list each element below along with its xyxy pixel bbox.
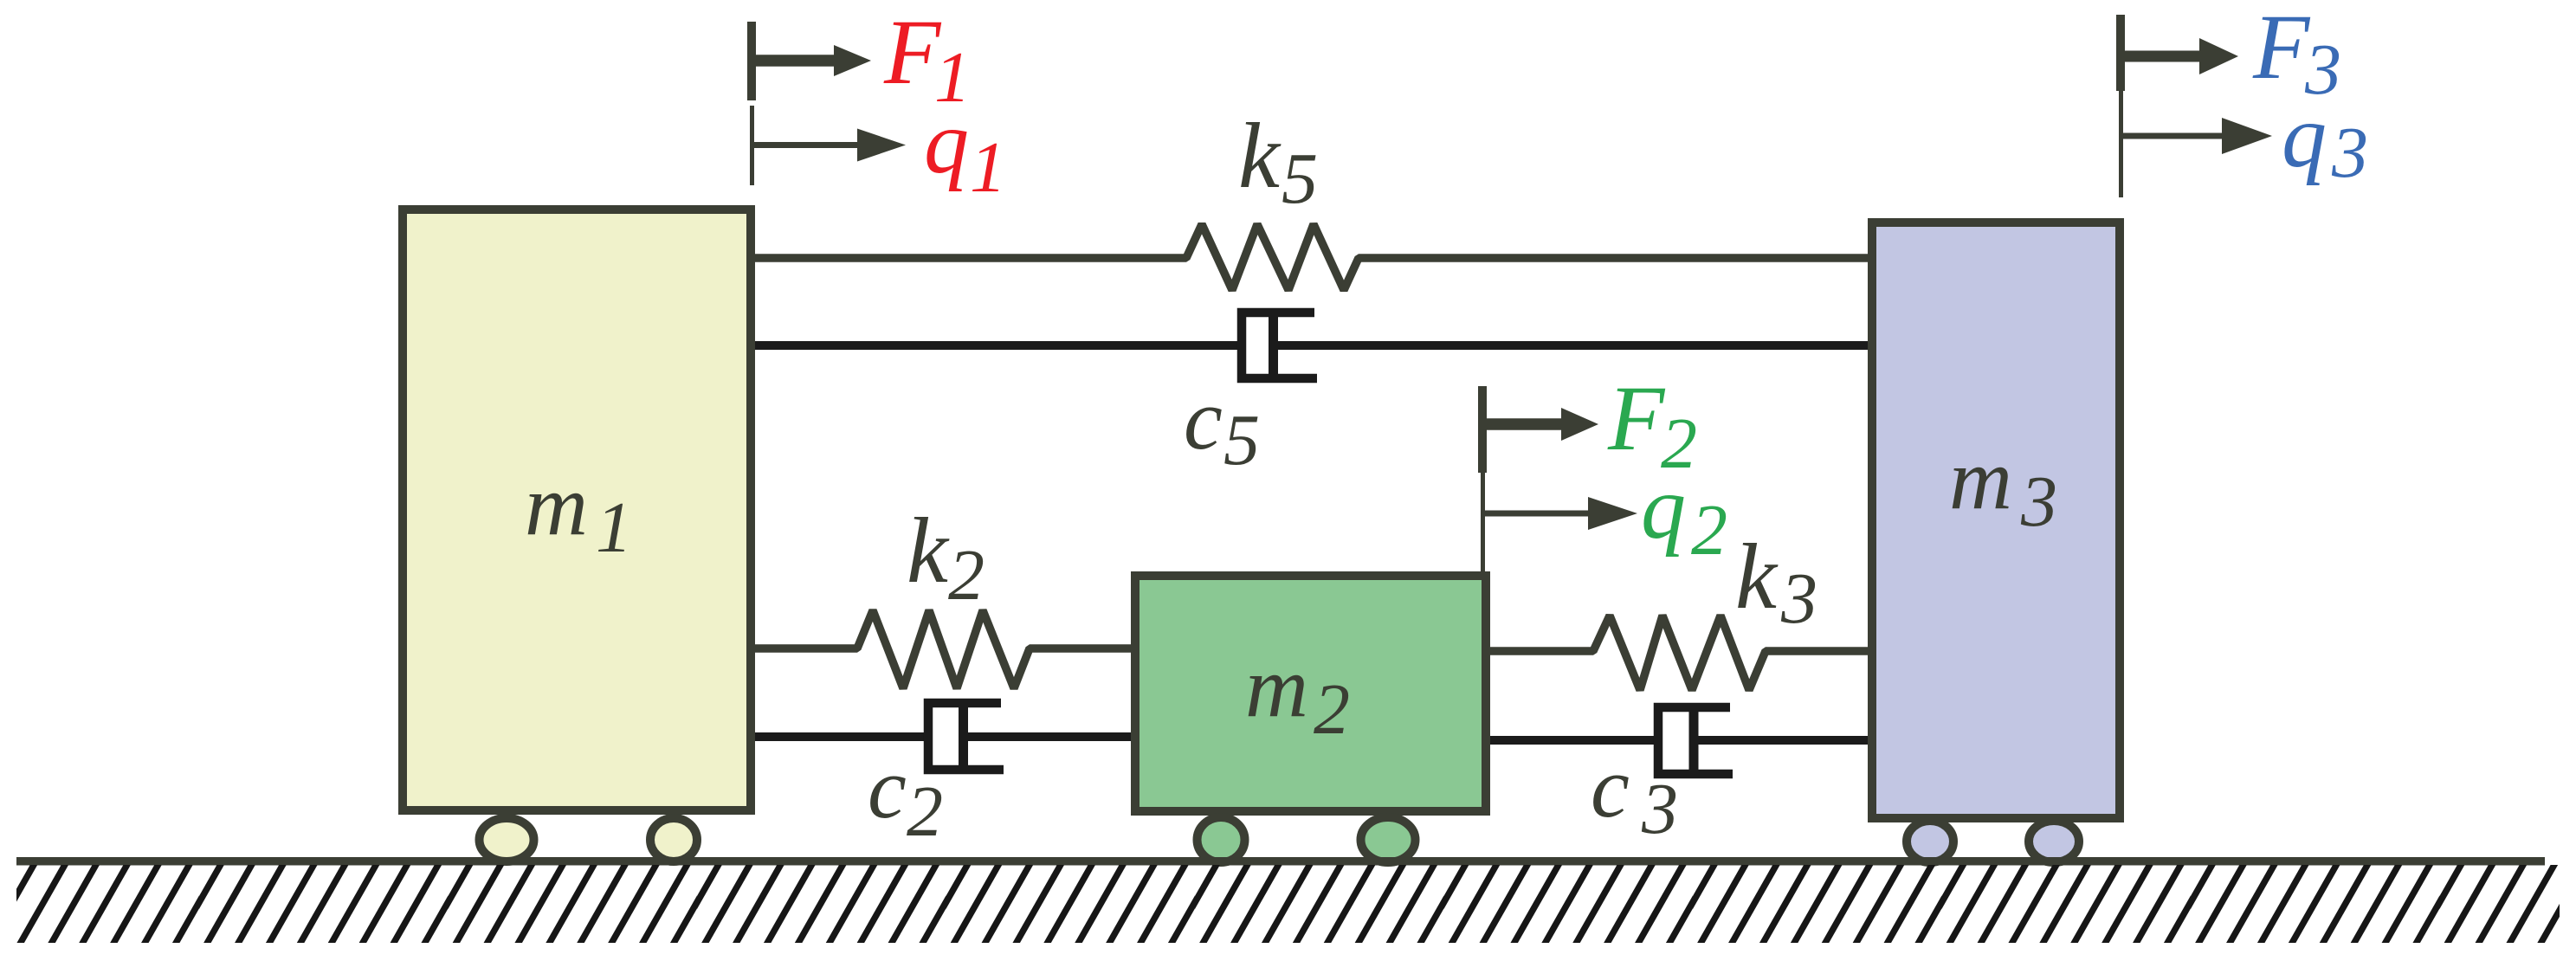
svg-text:2: 2 [1691, 490, 1727, 571]
damper c2 piston [959, 707, 968, 765]
label q3 [2282, 87, 2368, 193]
svg-text:k: k [1735, 526, 1779, 629]
damper c3 piston [1689, 712, 1699, 770]
svg-text:c: c [868, 739, 907, 836]
svg-text:F: F [883, 2, 942, 104]
damper c2 right rod [964, 732, 1132, 741]
wheel m2 right [1361, 817, 1416, 862]
damper c3 cylinder [1658, 707, 1733, 774]
svg-text:c: c [1591, 738, 1630, 835]
svg-text:q: q [1641, 458, 1686, 558]
wheel m2 left [1198, 817, 1245, 862]
mass m3 [1872, 223, 2120, 818]
label m2 [1245, 638, 1350, 750]
svg-text:3: 3 [2331, 113, 2368, 193]
tick bar thick F2 [1478, 386, 1487, 473]
coordinate tick q2/F2 at m2 [1482, 386, 1637, 571]
svg-text:2: 2 [948, 535, 985, 616]
svg-text:3: 3 [2020, 461, 2057, 542]
tick bar thick F3 [2116, 15, 2125, 91]
label m1 [525, 456, 632, 568]
label k2 [907, 500, 985, 616]
spring k3 (m2 to m3) [1490, 616, 1868, 690]
svg-text:q: q [2282, 87, 2327, 186]
ground hatching [16, 865, 2560, 943]
damper c3 left rod [1490, 736, 1658, 745]
svg-text:k: k [907, 500, 950, 603]
svg-text:3: 3 [1780, 558, 1817, 639]
svg-text:2: 2 [907, 771, 943, 852]
svg-text:c: c [1184, 371, 1223, 468]
label c5 [1184, 371, 1260, 480]
spring k2 (m1 to m2) [755, 610, 1131, 688]
svg-text:3: 3 [1641, 769, 1678, 849]
svg-text:m: m [525, 456, 588, 553]
label F3 [2252, 0, 2341, 110]
tick bar thin q3 [2119, 91, 2123, 197]
label k3 [1735, 526, 1817, 639]
damper c2 cylinder [928, 703, 1004, 770]
label c3 [1591, 738, 1678, 849]
wheel m3 left [1907, 821, 1953, 862]
damper c5 cylinder [1242, 313, 1317, 378]
force arrow F2 [1482, 418, 1561, 430]
wheel m1 left [480, 818, 534, 861]
force arrow F1 [752, 55, 834, 67]
svg-text:m: m [1245, 638, 1308, 735]
svg-text:5: 5 [1282, 139, 1318, 219]
mass m1 [403, 210, 751, 810]
wheel m1 right [650, 818, 697, 861]
svg-text:F: F [2252, 0, 2311, 99]
svg-text:2: 2 [1314, 669, 1350, 750]
mass m2 [1135, 576, 1486, 811]
force arrow F3 [2121, 51, 2199, 62]
coordinate tick q3/F3 at m3 [2121, 15, 2272, 197]
ground line [16, 857, 2545, 866]
svg-text:1: 1 [970, 127, 1006, 208]
damper c2 left rod [755, 732, 928, 741]
label q1 [924, 93, 1006, 208]
label k5 [1238, 105, 1318, 219]
label m3 [1949, 430, 2057, 542]
label c2 [868, 739, 943, 852]
label F2 [1607, 368, 1697, 484]
tick bar thin q1 [750, 106, 754, 185]
coordinate arrow q1 [752, 142, 857, 148]
coordinate arrow q3 [2121, 133, 2222, 139]
damper c2 (m1 to m2) [755, 703, 1131, 770]
svg-text:1: 1 [596, 487, 632, 568]
coordinate tick q1/F1 at m1 [752, 22, 906, 185]
tick bar thin q2 [1481, 473, 1485, 571]
svg-text:5: 5 [1223, 400, 1260, 480]
damper c5 left rod [755, 341, 1242, 350]
tick bar thick F1 [747, 22, 756, 100]
coordinate arrow q2 [1482, 511, 1588, 517]
damper c3 (m2 to m3) [1490, 707, 1868, 774]
damper c5 piston [1269, 317, 1278, 374]
svg-text:m: m [1949, 430, 2012, 527]
svg-text:F: F [1607, 368, 1666, 470]
damper c5 right rod [1274, 341, 1869, 350]
label F1 [883, 2, 971, 118]
svg-text:k: k [1238, 105, 1282, 208]
spring k5 (m1 to m3) [755, 224, 1868, 290]
label q2 [1641, 458, 1727, 571]
damper c5 (m1 to m3) [755, 313, 1868, 378]
svg-text:q: q [924, 93, 969, 192]
damper c3 right rod [1694, 736, 1868, 745]
wheel m3 right [2029, 821, 2079, 862]
